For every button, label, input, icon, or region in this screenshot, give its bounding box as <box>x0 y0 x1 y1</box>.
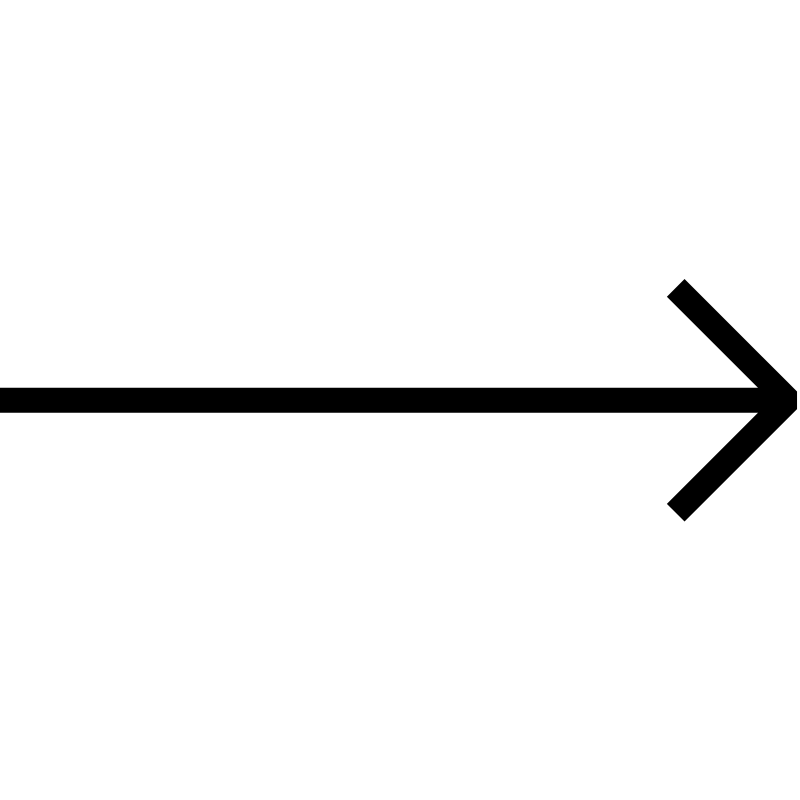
arrowhead <box>676 288 789 513</box>
arrow shaft <box>0 388 788 413</box>
